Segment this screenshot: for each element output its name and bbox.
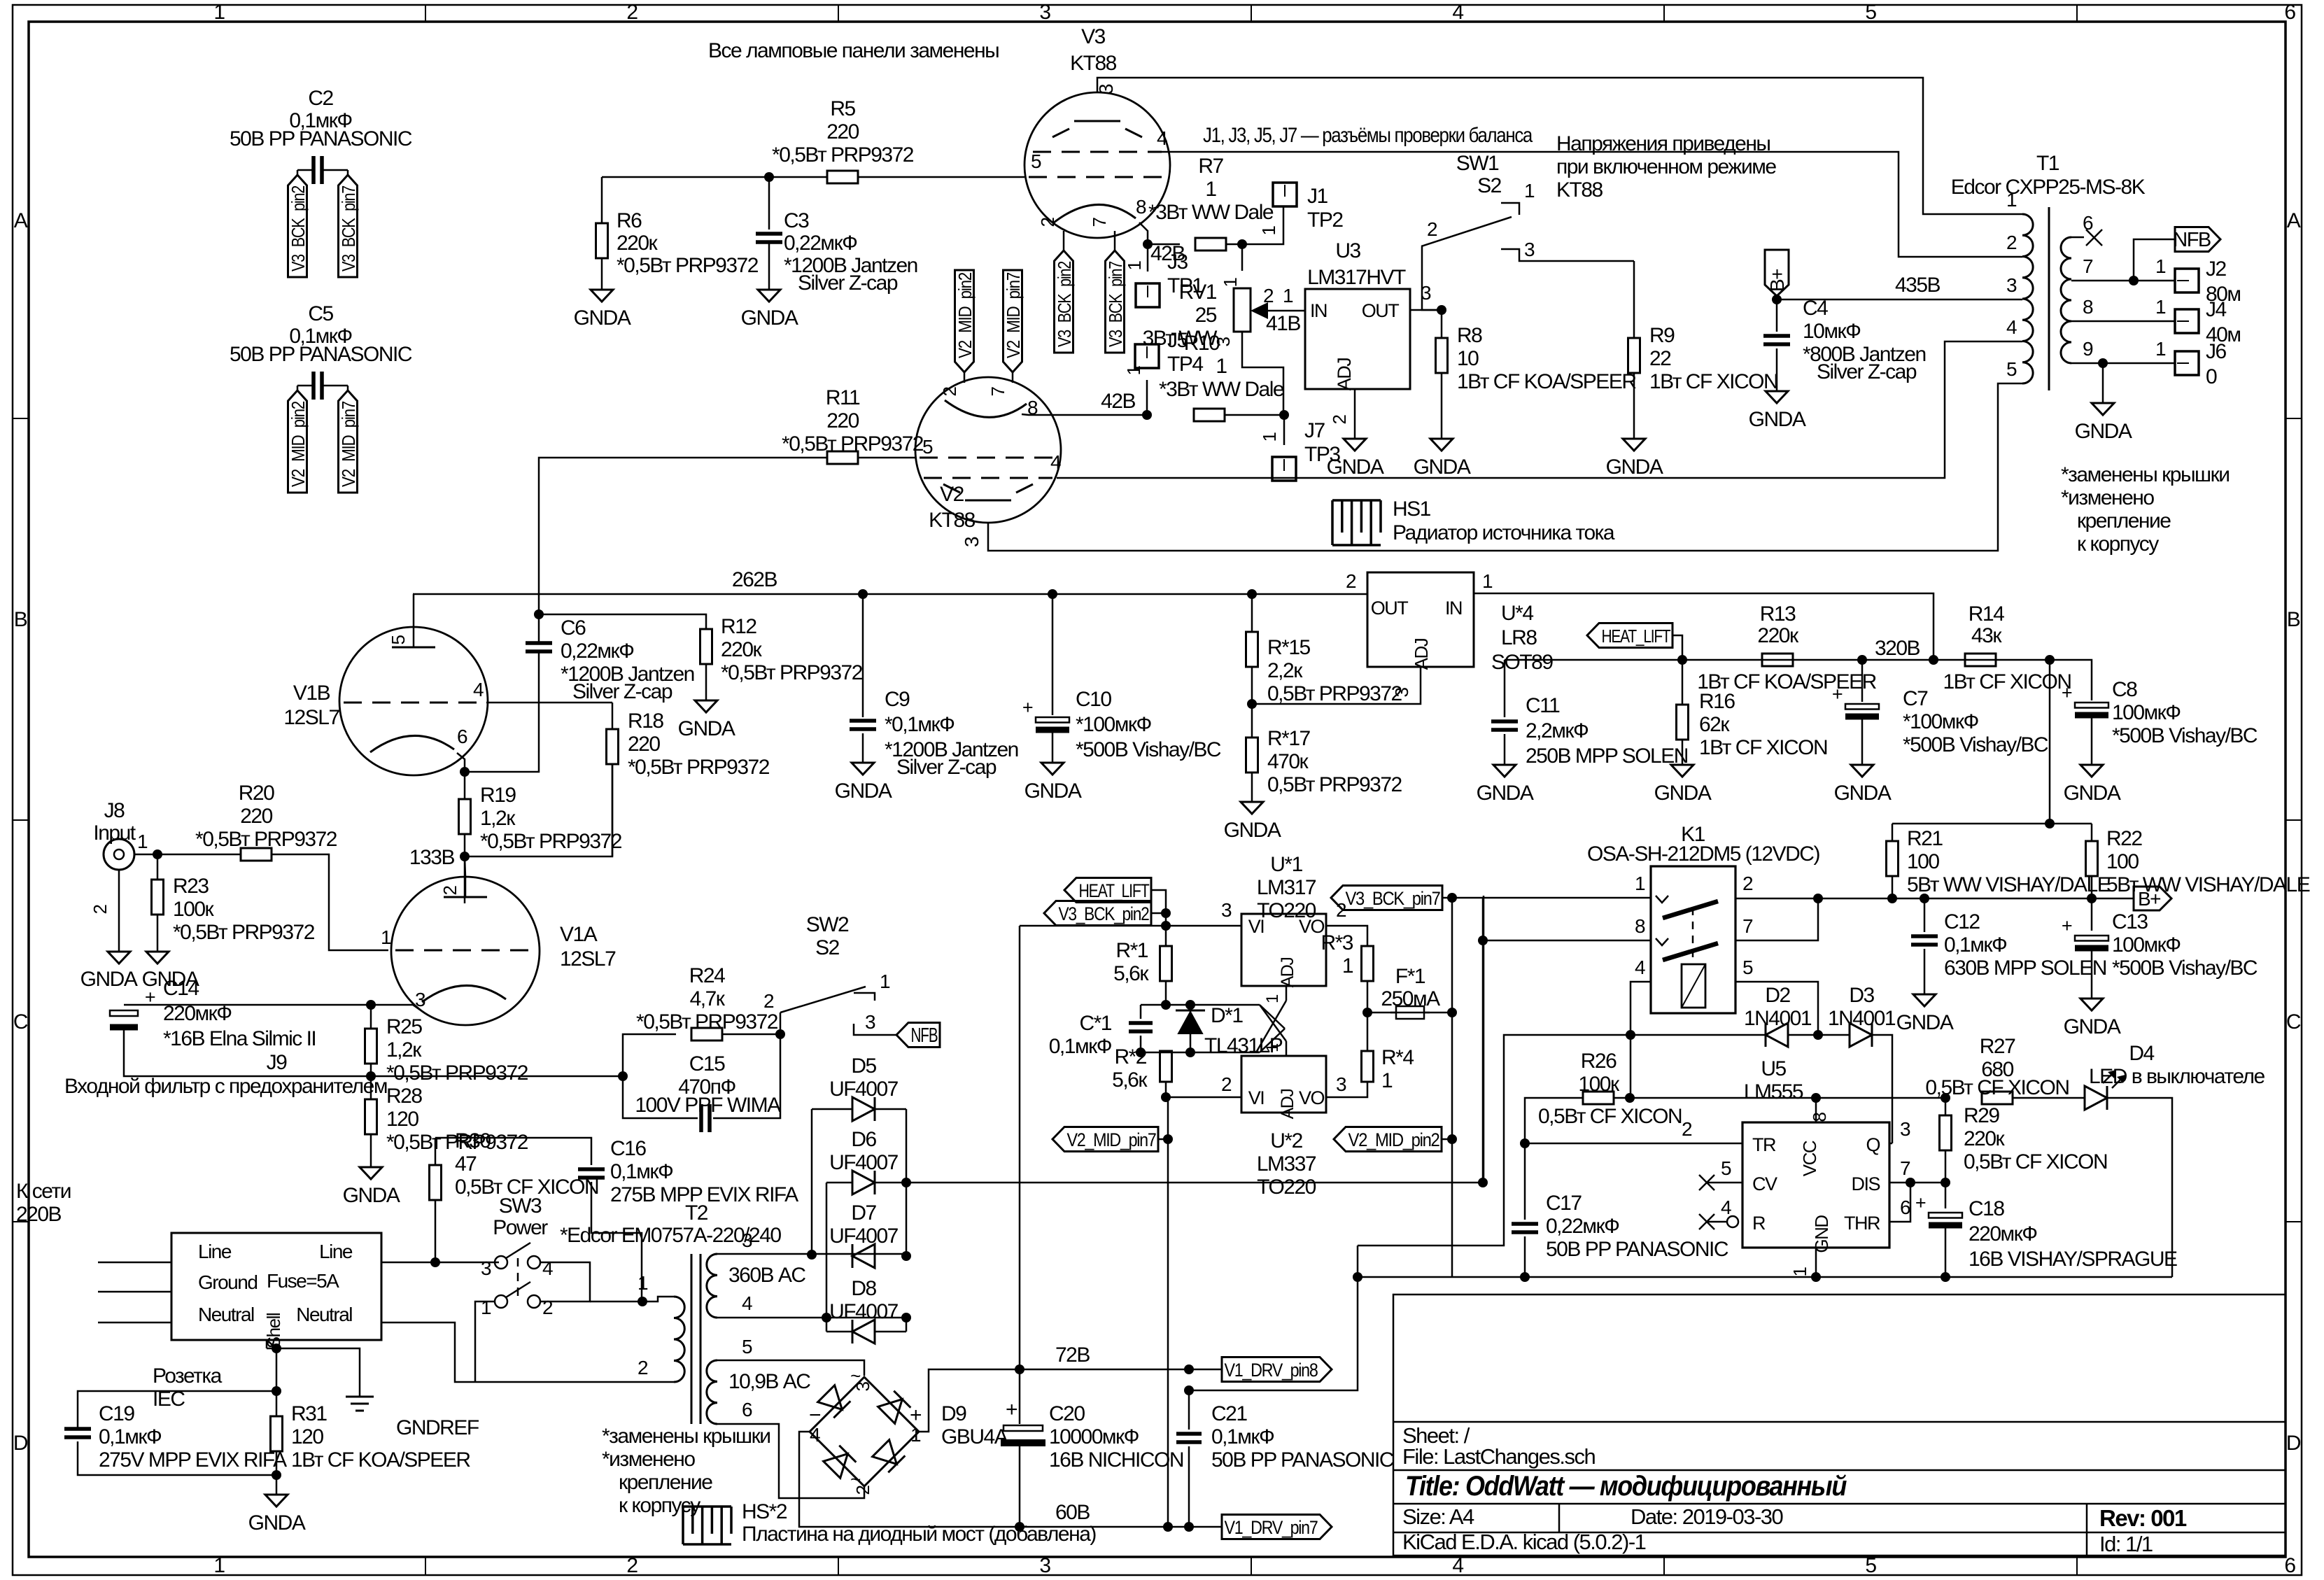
svg-text:220В: 220В — [16, 1203, 62, 1226]
svg-text:3: 3 — [865, 1011, 875, 1033]
svg-text:LM555: LM555 — [1744, 1080, 1803, 1103]
svg-text:60В: 60В — [1055, 1501, 1090, 1524]
ground R12 — [695, 700, 717, 712]
svg-text:J1, J3, J5, J7 — разъёмы прове: J1, J3, J5, J7 — разъёмы проверки баланс… — [1203, 124, 1533, 147]
svg-text:VI: VI — [1248, 916, 1265, 937]
svg-text:Q: Q — [1866, 1134, 1880, 1155]
svg-text:+: + — [2062, 915, 2072, 936]
resistor R11 — [827, 451, 858, 464]
resistor R25 — [370, 1005, 372, 1029]
svg-text:220к: 220к — [1757, 624, 1799, 647]
LM555 VCC pin8 — [1811, 1093, 1821, 1103]
resistor R31 — [276, 1391, 278, 1416]
svg-text:72В: 72В — [1055, 1343, 1090, 1367]
node TR/C17 — [1520, 1138, 1530, 1148]
svg-text:1Вт CF KOA/SPEER: 1Вт CF KOA/SPEER — [1457, 370, 1636, 393]
svg-text:6: 6 — [457, 726, 467, 747]
svg-text:5: 5 — [1742, 957, 1753, 978]
resistor R8 — [1441, 310, 1443, 338]
ground T1 pin9 — [2092, 403, 2114, 415]
svg-text:1,2к: 1,2к — [386, 1038, 422, 1061]
svg-text:Напряжения приведены: Напряжения приведены — [1556, 132, 1770, 155]
svg-text:220мкФ: 220мкФ — [1969, 1222, 2037, 1246]
svg-text:62к: 62к — [1699, 713, 1730, 736]
svg-text:25: 25 — [1195, 304, 1217, 327]
svg-text:C13: C13 — [2112, 910, 2148, 933]
ground R23 — [146, 952, 169, 964]
potentiometer RV1 — [1241, 244, 1244, 271]
wire TR into LM555 — [1525, 1143, 1742, 1145]
svg-text:220: 220 — [240, 805, 272, 828]
resistor R19 — [464, 772, 466, 799]
svg-text:3: 3 — [1336, 1073, 1346, 1095]
node R30 bottom — [430, 1257, 440, 1267]
svg-text:R*17: R*17 — [1267, 727, 1311, 750]
svg-text:1: 1 — [1381, 1069, 1393, 1092]
svg-text:GNDA: GNDA — [343, 1184, 400, 1207]
wire LR8 IN — [1474, 593, 1934, 660]
node R25/R28 — [366, 1071, 376, 1081]
wire V3 plate to T1 pin1 — [1097, 78, 1994, 214]
svg-text:7: 7 — [1742, 915, 1753, 937]
svg-text:3: 3 — [1900, 1118, 1910, 1140]
svg-text:1: 1 — [1482, 570, 1493, 592]
svg-text:U*4: U*4 — [1501, 602, 1533, 625]
svg-text:2: 2 — [638, 1357, 648, 1378]
wire V3 g1 row — [859, 176, 1024, 178]
svg-text:К сети: К сети — [16, 1180, 71, 1203]
svg-text:LM337: LM337 — [1257, 1152, 1316, 1176]
svg-text:Date: 2019-03-30: Date: 2019-03-30 — [1631, 1504, 1784, 1529]
svg-text:3: 3 — [1039, 1, 1050, 24]
node T2 pin4 right — [901, 1313, 911, 1322]
svg-text:KiCad E.D.A. kicad (5.0.2)-1: KiCad E.D.A. kicad (5.0.2)-1 — [1402, 1530, 1646, 1554]
node C17 bottom — [1520, 1272, 1530, 1282]
wire D6/D8 left vertical — [826, 1183, 828, 1332]
svg-text:1,2к: 1,2к — [480, 807, 516, 830]
svg-text:1: 1 — [2155, 255, 2166, 277]
svg-text:C4: C4 — [1803, 297, 1828, 320]
svg-text:12SL7: 12SL7 — [283, 706, 339, 729]
svg-text:C11: C11 — [1526, 694, 1560, 717]
svg-text:4: 4 — [1721, 1197, 1731, 1218]
net flag V3_BCK_pin7 (mid) — [1331, 886, 1442, 910]
svg-text:ADJ: ADJ — [1278, 1089, 1297, 1120]
svg-text:R28: R28 — [386, 1085, 422, 1108]
svg-text:B+: B+ — [2138, 888, 2160, 910]
capacitor C10 — [1052, 594, 1054, 715]
svg-text:C16: C16 — [610, 1137, 646, 1160]
svg-text:D6: D6 — [851, 1128, 876, 1151]
wire T2 pin3 row — [717, 1253, 906, 1255]
svg-text:*3Вт WW Dale: *3Вт WW Dale — [1159, 378, 1284, 401]
wire 60B rail — [1020, 1526, 1222, 1528]
svg-text:R18: R18 — [628, 710, 663, 733]
net flag V3_BCK_pin2 (C2 left) — [297, 170, 299, 175]
node LR8 IN to 320B — [1929, 655, 1938, 665]
diode D2 1N4001 — [1766, 1023, 1788, 1047]
svg-text:50В PP PANASONIC: 50В PP PANASONIC — [1546, 1238, 1728, 1261]
svg-text:R9: R9 — [1649, 324, 1675, 347]
svg-text:R12: R12 — [721, 615, 756, 638]
svg-text:*0,5Вт PRP9372: *0,5Вт PRP9372 — [480, 830, 622, 853]
svg-text:C2: C2 — [308, 87, 333, 110]
svg-text:1: 1 — [1216, 355, 1227, 378]
node TL431 bottom right — [1185, 1048, 1195, 1057]
svg-text:HEAT_LIFT: HEAT_LIFT — [1602, 626, 1671, 647]
svg-text:J9: J9 — [267, 1051, 288, 1074]
resistor R12 — [700, 629, 712, 664]
wire U*2 VO — [1326, 1082, 1367, 1097]
svg-text:IN: IN — [1310, 300, 1327, 321]
LM555 GND pin1 — [1815, 1248, 1817, 1277]
node R14 right — [2045, 655, 2055, 665]
svg-text:630В MPP SOLEN: 630В MPP SOLEN — [1944, 957, 2106, 980]
wire R14 node down to R21/R22 row — [2049, 660, 2051, 824]
wire D3 right to Q riser — [1872, 1035, 1892, 1143]
svg-text:+: + — [1022, 697, 1033, 718]
capacitor C21 — [1188, 1390, 1190, 1430]
T1 pin8 to J4 — [2071, 320, 2175, 323]
svg-text:GNDA: GNDA — [1606, 456, 1663, 479]
svg-text:GNDA: GNDA — [1477, 782, 1534, 805]
svg-text:TO220: TO220 — [1257, 1176, 1316, 1199]
svg-text:GNDA: GNDA — [2064, 1015, 2121, 1038]
resistor R21 — [1892, 824, 1894, 841]
svg-text:ADJ: ADJ — [1411, 638, 1432, 670]
node D6 right — [901, 1178, 911, 1187]
svg-text:1: 1 — [1205, 178, 1216, 201]
wire pin4 row to descender — [1358, 1035, 1631, 1246]
SW2 arm — [780, 987, 866, 1013]
svg-text:V2_MID_pin7: V2_MID_pin7 — [338, 401, 359, 487]
svg-text:*0,5Вт PRP9372: *0,5Вт PRP9372 — [628, 756, 770, 779]
svg-text:360В AC: 360В AC — [728, 1264, 805, 1287]
wire V1B cathode — [457, 753, 465, 772]
ground C12 — [1913, 994, 1936, 1006]
J9 Shell/Ground bottom — [267, 1340, 276, 1348]
wire SW1 pin3 to R9 — [1633, 261, 1635, 338]
LM555 CV pin5 nc — [1699, 1175, 1714, 1190]
resistor R*4 — [1362, 1051, 1374, 1082]
node 42B V2 — [1142, 410, 1152, 420]
connector J7 TP3 — [1272, 457, 1296, 481]
svg-text:C: C — [2286, 1010, 2301, 1034]
svg-text:0: 0 — [2206, 365, 2217, 388]
svg-text:V3_BCK_pin7: V3_BCK_pin7 — [1105, 261, 1126, 347]
K1 dashed link — [1692, 908, 1694, 961]
svg-text:2: 2 — [2006, 232, 2017, 253]
K1 pin4 wire — [1631, 982, 1651, 1098]
svg-text:9: 9 — [2083, 338, 2093, 360]
capacitor C9 — [862, 594, 864, 717]
svg-text:220к: 220к — [721, 638, 763, 661]
svg-text:*500В Vishay/BC: *500В Vishay/BC — [1903, 733, 2048, 756]
svg-text:R7: R7 — [1198, 155, 1223, 178]
wire V2 g1 row — [859, 457, 915, 459]
svg-text:GNDA: GNDA — [741, 306, 798, 330]
svg-text:D: D — [13, 1432, 28, 1455]
resistor R13 — [1762, 654, 1793, 666]
wire cathode to C6 bottom — [465, 652, 539, 772]
svg-text:R*4: R*4 — [1381, 1046, 1414, 1069]
diode D8 — [852, 1320, 875, 1343]
wire V2 g2 to T1 pin4 — [1057, 341, 1994, 478]
ground C10 — [1041, 763, 1064, 775]
wire 72B rail — [1020, 1369, 1222, 1371]
node T2 pin3 — [807, 1250, 817, 1260]
net flag HEAT_LIFT (left) — [1064, 878, 1151, 903]
capacitor C8 — [2050, 660, 2092, 700]
wire V2_MID_pin2 riser — [1451, 898, 1453, 1278]
node R29 bottom — [1941, 1178, 1950, 1187]
svg-text:50В PP PANASONIC: 50В PP PANASONIC — [1211, 1448, 1394, 1472]
svg-text:GNDA: GNDA — [2064, 782, 2121, 805]
svg-text:J6: J6 — [2206, 340, 2227, 363]
svg-text:GNDA: GNDA — [80, 968, 138, 991]
node TL431 top right — [1185, 1000, 1195, 1010]
svg-text:R6: R6 — [617, 209, 642, 232]
svg-text:GND: GND — [1811, 1215, 1832, 1253]
ground C4 — [1766, 391, 1788, 403]
node R7 right — [1237, 239, 1247, 249]
capacitor C15 — [623, 1076, 698, 1118]
svg-text:220к: 220к — [617, 232, 659, 255]
wire T2 pin4 row — [717, 1317, 906, 1319]
SW2 pin1 stub — [854, 993, 875, 1001]
svg-text:4: 4 — [1452, 1, 1463, 24]
svg-text:Silver Z-cap: Silver Z-cap — [572, 680, 672, 703]
svg-text:R11: R11 — [826, 386, 860, 409]
svg-text:*0,5Вт PRP9372: *0,5Вт PRP9372 — [173, 921, 315, 944]
node U*2 VI — [1161, 1092, 1171, 1102]
resistor R14 — [1965, 654, 1996, 666]
svg-text:*0,1мкФ: *0,1мкФ — [885, 713, 955, 736]
resistor R5 — [827, 171, 858, 183]
svg-text:R5: R5 — [830, 97, 855, 120]
svg-text:1: 1 — [1259, 432, 1280, 442]
node flags join — [1161, 908, 1171, 918]
svg-text:Line: Line — [319, 1241, 353, 1262]
svg-text:1: 1 — [1263, 1043, 1282, 1052]
svg-text:4: 4 — [473, 679, 484, 700]
LM555 DIS pin7 — [1889, 1182, 1945, 1184]
svg-text:1: 1 — [1283, 285, 1293, 306]
wire heater riser x2119 — [1482, 898, 1484, 1183]
node V1B cathode — [460, 767, 470, 777]
resistor R10 — [1194, 409, 1225, 421]
wire bridge minus to 60B rail — [799, 1432, 1020, 1527]
resistor R24 — [623, 1034, 676, 1076]
svg-text:4: 4 — [542, 1257, 553, 1279]
svg-text:5: 5 — [1865, 1554, 1876, 1577]
svg-text:7: 7 — [987, 386, 1008, 396]
svg-text:250мА: 250мА — [1381, 987, 1440, 1010]
svg-text:R*2: R*2 — [1114, 1045, 1146, 1068]
wire V3 pin8 to 42B node — [1139, 223, 1148, 244]
node R31 bottom — [272, 1470, 281, 1480]
svg-text:1: 1 — [137, 831, 148, 852]
svg-text:D*1: D*1 — [1211, 1004, 1243, 1027]
capacitor C17 — [1524, 1143, 1526, 1220]
svg-text:C15: C15 — [689, 1052, 725, 1075]
svg-text:0,22мкФ: 0,22мкФ — [784, 232, 857, 255]
node 133B — [460, 852, 470, 861]
svg-text:GNDA: GNDA — [1654, 782, 1712, 805]
ground C9 — [852, 763, 874, 775]
svg-text:KT88: KT88 — [1556, 178, 1603, 202]
T2 secondary 10.9V winding — [707, 1360, 717, 1424]
tube V2 KT88 — [915, 377, 1061, 523]
svg-text:42В: 42В — [1101, 390, 1135, 413]
svg-text:R27: R27 — [1980, 1035, 2015, 1058]
svg-text:R10: R10 — [1184, 332, 1220, 355]
svg-text:100к: 100к — [1578, 1073, 1620, 1096]
svg-text:GNDA: GNDA — [574, 306, 631, 330]
svg-text:Fuse=5A: Fuse=5A — [267, 1270, 339, 1292]
K1 contact arm A — [1663, 901, 1718, 918]
svg-text:C9: C9 — [885, 688, 910, 711]
svg-text:V3_BCK_pin7: V3_BCK_pin7 — [338, 185, 359, 271]
wire 42B V2 to J5 — [1146, 380, 1148, 415]
svg-text:+: + — [145, 987, 155, 1008]
svg-text:TP4: TP4 — [1167, 353, 1203, 376]
svg-text:*0,5Вт PRP9372: *0,5Вт PRP9372 — [617, 254, 759, 277]
K1 pin1 wire — [1483, 897, 1651, 899]
svg-text:5,6к: 5,6к — [1112, 1068, 1148, 1092]
wire R20 to V1A grid — [272, 854, 388, 950]
node rail R15 — [1247, 589, 1257, 599]
T2 primary winding — [674, 1297, 684, 1382]
svg-text:0,5Вт PRP9372: 0,5Вт PRP9372 — [1267, 682, 1402, 705]
svg-text:ADJ: ADJ — [1278, 958, 1297, 988]
node C6 top — [534, 609, 544, 619]
svg-text:470к: 470к — [1267, 750, 1309, 773]
SW2 pin2 wire — [780, 1013, 782, 1034]
node T2 pin4 left — [822, 1313, 831, 1322]
svg-text:V2_MID_pin7: V2_MID_pin7 — [1067, 1129, 1156, 1150]
node R22 bottom — [2087, 894, 2097, 903]
svg-text:220: 220 — [826, 409, 859, 432]
svg-text:IN: IN — [1445, 598, 1462, 619]
wire R25 node to R24 branch — [371, 1075, 623, 1078]
svg-text:GNDA: GNDA — [1024, 780, 1082, 803]
T1 pin9 to J6 — [2071, 362, 2175, 365]
svg-text:J2: J2 — [2206, 258, 2227, 281]
svg-text:C10: C10 — [1076, 688, 1111, 711]
svg-text:6: 6 — [742, 1399, 752, 1420]
wire 133B to R18 bottom — [465, 764, 612, 856]
svg-text:2: 2 — [626, 1554, 638, 1577]
svg-text:3: 3 — [481, 1257, 491, 1279]
wire V1B grid to R18 node — [486, 702, 612, 704]
node D7 right — [901, 1251, 911, 1261]
svg-text:100мкФ: 100мкФ — [2112, 701, 2181, 724]
svg-text:0,1мкФ: 0,1мкФ — [610, 1160, 673, 1183]
ground J8 — [108, 952, 130, 964]
net flag V3_BCK_pin7 under tube — [1106, 251, 1125, 353]
capacitor C3 — [768, 177, 770, 230]
SW1 pin1 stub — [1501, 203, 1519, 215]
node rail C10 — [1048, 589, 1057, 599]
svg-text:D9: D9 — [941, 1402, 966, 1425]
node R21 bottom — [1887, 894, 1897, 903]
node B+ 435B — [1772, 295, 1782, 304]
resistor R9 — [1628, 338, 1640, 373]
svg-text:275V MPP EVIX RIFA: 275V MPP EVIX RIFA — [99, 1448, 287, 1472]
svg-text:J3: J3 — [1167, 251, 1188, 274]
node C12 top — [1920, 894, 1929, 903]
T1 core — [2048, 207, 2050, 390]
node THR jog — [1906, 1178, 1915, 1187]
svg-text:2: 2 — [90, 904, 111, 914]
resistor R*2 — [1165, 1052, 1167, 1054]
node C20 bottom — [1015, 1522, 1024, 1532]
node V1A cathode — [366, 1000, 376, 1010]
svg-text:2: 2 — [626, 1, 638, 24]
svg-text:S2: S2 — [815, 936, 840, 959]
SW2 pin3 stub — [854, 1024, 896, 1035]
svg-text:V1B: V1B — [293, 682, 330, 705]
svg-text:HS*2: HS*2 — [742, 1500, 787, 1523]
net flag V3_BCK_pin2 under tube — [1055, 251, 1073, 353]
svg-text:D: D — [2286, 1432, 2301, 1455]
ground C13 — [2080, 999, 2103, 1010]
node F1 left — [1362, 1008, 1372, 1017]
svg-text:8: 8 — [1635, 915, 1645, 937]
regulator U*2 LM337 TO220 — [1241, 1056, 1326, 1113]
net flag V2_MID_pin2 (C5 left) — [297, 386, 299, 390]
resistor R*3 — [1362, 946, 1374, 981]
wire J9 Line out — [381, 1262, 499, 1264]
svg-text:100мкФ: 100мкФ — [2112, 933, 2181, 957]
resistor R26 — [1583, 1092, 1614, 1104]
svg-text:KT88: KT88 — [929, 509, 976, 532]
svg-text:C7: C7 — [1903, 687, 1928, 710]
svg-text:1Вт CF XICON: 1Вт CF XICON — [1943, 670, 2071, 693]
svg-text:2: 2 — [763, 990, 774, 1012]
capacitor C6 — [526, 641, 552, 645]
svg-text:*100мкФ: *100мкФ — [1903, 710, 1978, 733]
net flag V1_DRV_pin7 — [1222, 1515, 1332, 1539]
svg-text:0,5Вт CF XICON: 0,5Вт CF XICON — [1964, 1150, 2107, 1173]
wire R26 row — [1525, 1098, 1583, 1143]
node U3 out — [1437, 305, 1446, 315]
ground R8 — [1430, 439, 1453, 451]
svg-text:D4: D4 — [2129, 1042, 2154, 1065]
svg-text:2: 2 — [1346, 570, 1356, 592]
svg-text:1Вт CF KOA/SPEER: 1Вт CF KOA/SPEER — [291, 1448, 470, 1472]
svg-text:D8: D8 — [851, 1277, 876, 1300]
svg-text:*заменены крышки: *заменены крышки — [2061, 463, 2229, 486]
svg-text:Радиатор источника тока: Радиатор источника тока — [1393, 521, 1615, 544]
svg-text:U*1: U*1 — [1270, 853, 1302, 876]
T2 secondary 360V winding — [707, 1254, 717, 1318]
svg-text:435В: 435В — [1895, 274, 1941, 297]
resistor R20 — [241, 848, 272, 861]
svg-text:4,7к: 4,7к — [690, 987, 726, 1010]
svg-text:3: 3 — [961, 537, 983, 547]
svg-text:+: + — [1006, 1398, 1017, 1421]
svg-text:GNDA: GNDA — [1834, 782, 1892, 805]
SW3 pole A — [495, 1256, 507, 1269]
capacitor C11 — [1504, 660, 1506, 717]
svg-text:Rev: 001: Rev: 001 — [2099, 1505, 2187, 1531]
capacitor C*1 — [1140, 1005, 1142, 1019]
resistor R*15 — [1251, 594, 1253, 632]
ground U3 ADJ — [1344, 439, 1366, 451]
svg-text:SW1: SW1 — [1456, 152, 1499, 175]
